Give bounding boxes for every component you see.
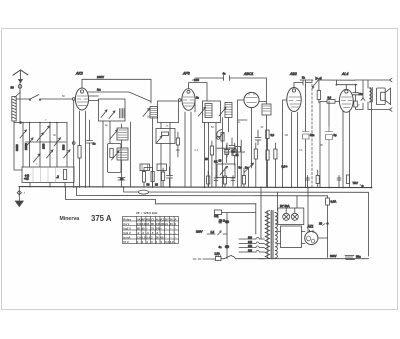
AF3 cathode wires — [185, 112, 191, 187]
plate supply wire 240V — [82, 79, 151, 103]
vertical mains to bottom — [226, 213, 228, 259]
switch (antenna selector) — [15, 92, 21, 98]
resistor in box — [64, 170, 67, 180]
svg-text:--: -- — [160, 232, 162, 235]
trimmer arrows in box — [101, 110, 107, 118]
coupling caps on rail — [316, 77, 322, 80]
svg-text:0,3: 0,3 — [271, 133, 275, 137]
svg-text:70: 70 — [151, 226, 154, 230]
svg-text:1500: 1500 — [43, 143, 46, 149]
svg-text:95: 95 — [142, 226, 145, 230]
local screen rail — [336, 80, 357, 89]
svg-text:BY: BY — [165, 217, 169, 221]
valve data table — [123, 217, 179, 244]
capacitor 50nF — [303, 132, 310, 140]
hanging components on bus (mid right) — [306, 176, 310, 188]
shielding box stub 2 — [157, 164, 167, 171]
tube AZ1 (rectifier) — [305, 230, 318, 245]
svg-text:0,3: 0,3 — [328, 96, 332, 100]
wire T2 down — [266, 115, 268, 187]
svg-text:2x: 2x — [165, 222, 168, 226]
svg-text:240V: 240V — [97, 75, 104, 79]
fuse (mains) — [216, 257, 222, 261]
svg-text:AB2: AB2 — [289, 72, 297, 76]
tone switch box — [217, 164, 235, 178]
svg-text:ZF = 128,5 kHz: ZF = 128,5 kHz — [136, 211, 158, 215]
box osc 2 — [203, 101, 221, 123]
svg-text:125: 125 — [248, 241, 253, 244]
shielding box stub 1 — [140, 164, 150, 171]
switch S1 — [29, 95, 40, 101]
svg-text:Ug2 V: Ug2 V — [123, 226, 131, 230]
svg-text:110: 110 — [248, 236, 252, 239]
wire pot to bus — [248, 169, 250, 188]
resistor — [221, 133, 224, 142]
table cell texts — [123, 217, 176, 244]
junction node — [20, 122, 22, 124]
svg-text:1M: 1M — [242, 151, 245, 154]
svg-text:--: -- — [165, 227, 167, 230]
wire T1 to capacitor — [121, 161, 123, 178]
capacitor bead 7n — [225, 221, 229, 224]
svg-text:1,5: 1,5 — [211, 230, 215, 234]
svg-text:--: -- — [175, 227, 177, 230]
resistor 0.3 — [266, 130, 269, 139]
trimmer capacitor arrows — [20, 130, 27, 138]
capacitor right of AL4 top — [353, 85, 359, 101]
junction 25 — [327, 223, 329, 225]
pilot lamp 1 — [283, 208, 290, 220]
svg-text:95: 95 — [146, 222, 149, 226]
small components above bus (left-mid) — [207, 176, 210, 184]
power transformer primary zigzag — [265, 211, 269, 259]
transformer secondary bumps — [275, 213, 277, 259]
svg-text:30: 30 — [170, 222, 173, 226]
wires osc to bus — [153, 118, 171, 188]
svg-text:Ua V: Ua V — [123, 222, 129, 226]
trimmer arrow coil3 — [219, 107, 226, 116]
ABC1 plate wire — [259, 101, 266, 103]
svg-text:150: 150 — [248, 245, 253, 248]
svg-text:50n: 50n — [310, 133, 315, 137]
pilot lamp box — [278, 208, 304, 225]
svg-text:+5: +5 — [24, 176, 29, 181]
wire (IF sec) — [240, 140, 242, 187]
wire (coil box to IF screen) — [109, 121, 111, 144]
capacitor pair — [224, 143, 230, 157]
svg-text:A: A — [175, 217, 177, 221]
nested return wire 2 — [77, 187, 328, 196]
tap coil bumps — [256, 237, 259, 252]
capacitor (detector) — [229, 138, 235, 156]
voltage selector taps — [239, 239, 256, 252]
capacitor (cathode bypass) — [87, 141, 93, 188]
title Minerva 375 A — [60, 214, 112, 223]
AL4 cathode wires — [343, 111, 350, 187]
svg-text:--: -- — [170, 236, 172, 239]
trimmer arrow padder — [157, 136, 162, 142]
plate bus wire (mid) — [195, 78, 267, 104]
right return wire — [371, 102, 373, 188]
svg-text:3w: 3w — [245, 167, 248, 170]
wire grid line to AK2 — [16, 98, 73, 100]
svg-text:50: 50 — [11, 86, 15, 90]
wire AL4 to output transformer — [355, 80, 368, 88]
transformer core — [371, 88, 373, 103]
wire T1 right side down — [122, 122, 131, 187]
chassis tap symbol — [345, 256, 355, 260]
svg-text:85: 85 — [151, 222, 154, 226]
AZ1 to right wire — [318, 237, 328, 239]
svg-text:0,5A: 0,5A — [331, 200, 337, 204]
resistor (AB1 load) — [317, 91, 320, 100]
wire mesh crossbar — [25, 141, 66, 143]
resistor (AF3 grid leak) — [176, 138, 179, 145]
antenna lead wire — [18, 83, 22, 123]
svg-text:BY 56A: BY 56A — [280, 204, 290, 208]
svg-text:220: 220 — [248, 249, 253, 252]
svg-text:Minerva: Minerva — [60, 216, 80, 222]
gang link (dashed) — [311, 80, 313, 187]
coil in box — [120, 109, 125, 119]
band filter box — [99, 99, 126, 121]
svg-text:36: 36 — [156, 235, 159, 239]
ground symbol (earth arrow) — [15, 187, 24, 207]
mains switch — [224, 256, 235, 259]
wire (coil box secondary) — [102, 121, 104, 187]
tube ADC1 — [244, 92, 259, 107]
speaker — [376, 88, 390, 105]
power feed verticals — [256, 187, 308, 238]
wire horizontal tuning rail — [14, 122, 67, 124]
svg-text:--: -- — [170, 227, 172, 230]
svg-text:20: 20 — [120, 177, 124, 181]
nested return wire 1 — [124, 187, 369, 256]
electrolytic 8uF — [326, 126, 333, 188]
field coil wire — [362, 80, 364, 110]
AB1 top components — [294, 80, 312, 88]
svg-text:78V: 78V — [353, 181, 358, 185]
box oscillator section — [158, 101, 179, 123]
trimmer arrow osc — [143, 108, 150, 116]
svg-text:95: 95 — [137, 226, 140, 230]
tube AF3 — [182, 89, 195, 111]
svg-text:0,4: 0,4 — [146, 235, 150, 239]
svg-text:AL4: AL4 — [341, 72, 348, 76]
svg-text:30000: 30000 — [16, 144, 19, 151]
capacitor 50pF — [255, 130, 261, 145]
screening box around T1 lower — [108, 144, 122, 173]
svg-text:Röhre: Röhre — [123, 217, 131, 221]
svg-text:78 Ω: 78 Ω — [219, 219, 225, 223]
svg-text:0,5: 0,5 — [299, 149, 303, 152]
resistors (diode load chain) — [254, 149, 257, 159]
transformer core — [271, 211, 273, 259]
bus junction dots — [65, 186, 373, 188]
svg-text:Ug1 V: Ug1 V — [123, 231, 131, 235]
svg-text:AK2: AK2 — [75, 72, 83, 76]
ground bus (chassis) — [19, 187, 372, 188]
coil L1 (30000) — [12, 97, 16, 122]
svg-text:2m: 2m — [97, 88, 101, 92]
ADC1 bottom wire — [251, 108, 253, 163]
resistor (cathode) — [78, 146, 81, 159]
svg-text:0,1: 0,1 — [195, 149, 199, 152]
resistor (osc grid) — [233, 149, 236, 155]
svg-text:--: -- — [170, 232, 172, 235]
svg-text:25: 25 — [319, 222, 323, 226]
svg-text:--: -- — [175, 241, 177, 244]
capacitor node on vertical — [225, 245, 229, 248]
svg-text:--: -- — [165, 232, 167, 235]
bottom power bus — [235, 258, 369, 260]
grid node AF3 — [178, 99, 181, 102]
mains line upper — [207, 233, 227, 235]
svg-text:--: -- — [175, 236, 177, 239]
tube AB1 — [287, 88, 301, 112]
svg-text:60: 60 — [160, 235, 163, 239]
tube AK2 — [75, 88, 88, 110]
svg-text:--: -- — [146, 227, 148, 230]
resistor (tone) — [354, 101, 358, 107]
wire crossbar — [217, 147, 236, 149]
output transformer primary — [369, 88, 371, 102]
wire box to AZ1 — [278, 232, 306, 244]
oscillator coil (with core) — [150, 107, 158, 119]
ADC1 left wire — [238, 100, 244, 187]
tube AL4 — [339, 89, 353, 112]
cathode wires to bus — [80, 111, 90, 187]
fuse lamp (oval on wire) — [139, 190, 149, 194]
trimmer arrow — [199, 107, 206, 116]
capacitor small in box — [162, 132, 169, 136]
svg-text:375 A: 375 A — [91, 214, 112, 223]
svg-text:1,5A: 1,5A — [215, 252, 221, 256]
svg-text:2M: 2M — [285, 134, 288, 137]
scattered value labels — [36, 79, 360, 166]
svg-text:56: 56 — [170, 217, 173, 221]
svg-text:6,3: 6,3 — [165, 240, 169, 244]
small box 0.1 — [235, 147, 241, 153]
coupling capacitor 4n — [224, 76, 230, 81]
lower padder box — [156, 129, 175, 144]
mains cord — [193, 258, 216, 260]
nested return wire 3 — [66, 187, 257, 204]
wire coil to bus — [14, 121, 22, 170]
speaker terminals — [368, 78, 392, 82]
screen wire — [88, 92, 151, 102]
IF transformer T2 — [262, 104, 271, 115]
svg-text:AF3: AF3 — [182, 72, 190, 76]
capacitor under T1 — [118, 178, 125, 188]
AB1 cathode wires — [292, 113, 298, 188]
wires down (osc 2 area) — [205, 118, 229, 188]
svg-text:Ia mA: Ia mA — [123, 235, 130, 239]
pilot lamp 2 — [291, 208, 298, 220]
wire (AB1 diode lead) — [283, 100, 287, 187]
svg-text:50n: 50n — [356, 255, 361, 259]
wires box to ground bus — [30, 183, 65, 188]
right vertical with electrolytic — [305, 85, 307, 187]
plate wire AF3 — [189, 83, 208, 101]
svg-text:250V: 250V — [192, 79, 198, 82]
svg-text:0,2: 0,2 — [170, 240, 174, 244]
IF transformer T1 winding a — [117, 128, 128, 140]
trimmer arrows T1 — [110, 130, 118, 139]
grid resistor 0.3 — [327, 100, 335, 104]
svg-text:220V: 220V — [196, 230, 203, 234]
antenna — [13, 70, 28, 82]
band switch wiper curve — [217, 130, 222, 138]
svg-text:300V: 300V — [330, 254, 337, 258]
IF transformer T1 winding b — [117, 148, 128, 160]
wire top rail to AL4 — [300, 79, 355, 81]
svg-text:--: -- — [160, 227, 162, 230]
fuse on right vertical — [326, 198, 330, 205]
band switch box — [22, 167, 74, 183]
svg-text:AZ1: AZ1 — [307, 225, 314, 229]
AK2 side leads — [89, 96, 99, 101]
svg-text:5000: 5000 — [63, 144, 66, 150]
arrow on mains line — [218, 231, 222, 235]
tone capacitor box — [215, 210, 222, 215]
svg-text:AB: AB — [146, 217, 150, 221]
AVC wire — [73, 100, 75, 187]
svg-text:100: 100 — [176, 149, 181, 152]
switch above AB1 — [312, 79, 319, 89]
capacitor bars — [167, 167, 173, 187]
svg-text:Uf V: Uf V — [123, 240, 129, 244]
heater circuit box — [281, 226, 302, 248]
resistor in screen box — [110, 149, 113, 158]
volume pot arrow — [244, 163, 254, 173]
grid cap node — [72, 98, 75, 101]
svg-text:--: -- — [165, 236, 167, 239]
resistor (mixer) — [225, 150, 229, 155]
svg-text:C1: C1 — [151, 217, 155, 221]
svg-text:8µ: 8µ — [334, 133, 337, 137]
coil 3 with arrow — [225, 103, 232, 118]
wires chain to bus — [256, 139, 276, 188]
wire (ADC1 grid branch) — [238, 119, 247, 121]
osc coil 2 — [205, 104, 212, 118]
resistor trio — [142, 172, 145, 183]
svg-text:5,5: 5,5 — [142, 235, 146, 239]
svg-text:2,6: 2,6 — [137, 235, 141, 239]
svg-text:--: -- — [175, 232, 177, 235]
svg-text:.2: .2 — [56, 175, 59, 179]
tuning network vertical wires — [23, 123, 67, 168]
resistor (detector chain) — [210, 146, 213, 155]
svg-text:ABC1: ABC1 — [243, 72, 253, 76]
svg-text:20000: 20000 — [25, 143, 28, 150]
